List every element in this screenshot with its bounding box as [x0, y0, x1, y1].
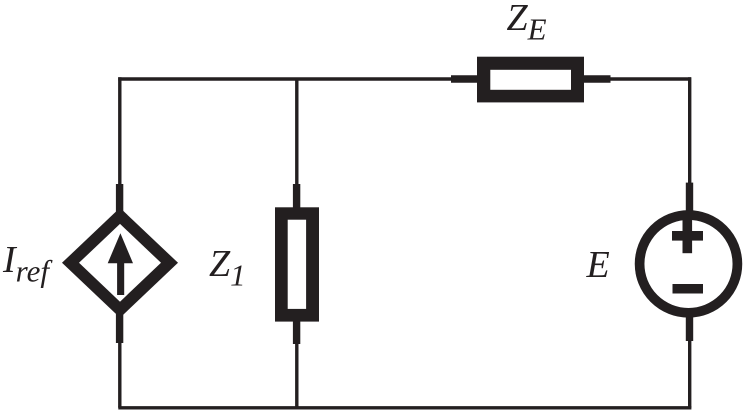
- current source I_ref diamond: [62, 208, 178, 318]
- wire right vertical lower: [688, 338, 691, 408]
- wire left vertical lower: [118, 339, 121, 408]
- lead stub above E source: [686, 183, 693, 212]
- label Z_E: [507, 0, 547, 48]
- lead stub above Z1: [293, 184, 300, 210]
- lead stub below E source: [686, 315, 693, 341]
- lead stub left of ZE: [451, 75, 480, 82]
- lead stub below Z1: [293, 319, 300, 344]
- label I_ref: [3, 238, 49, 290]
- wire bottom horizontal: [118, 406, 691, 409]
- label E: [587, 243, 610, 287]
- wire middle vertical lower: [295, 340, 298, 408]
- minus sign: [673, 284, 704, 294]
- impedance Z1 body: [275, 207, 319, 321]
- wire left vertical upper: [118, 77, 121, 188]
- wire top horizontal: [118, 77, 691, 80]
- label Z_1: [209, 242, 246, 294]
- lead stub below current source: [116, 314, 123, 343]
- lead stub right of ZE: [581, 75, 611, 82]
- current source arrow: [108, 233, 133, 295]
- impedance ZE body: [477, 57, 584, 103]
- voltage source E circle: [640, 215, 738, 313]
- lead stub above current source: [116, 184, 123, 212]
- wire right vertical upper: [688, 77, 691, 188]
- wire middle vertical upper: [295, 79, 298, 188]
- plus sign: [672, 218, 703, 253]
